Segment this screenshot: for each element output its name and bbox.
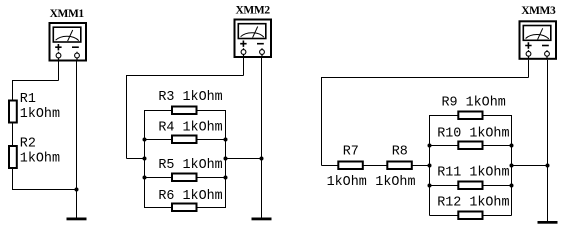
wire XMM1 minus terminal down — [76, 62, 78, 190]
left rail right bank — [429, 115, 431, 216]
wire down to R7 — [321, 77, 323, 166]
resistor R8 — [387, 162, 412, 170]
wire R1 to R2 — [12, 124, 14, 146]
wire R8 to left rail — [413, 165, 430, 167]
wire horizontal to left — [322, 77, 529, 79]
svg-text:R1: R1 — [20, 92, 36, 107]
svg-text:R5 1kOhm: R5 1kOhm — [158, 158, 222, 173]
resistor R4 — [145, 139, 172, 141]
svg-text:R11 1kOhm: R11 1kOhm — [437, 166, 509, 181]
junction left rail / feed — [143, 157, 147, 161]
wire down left side — [126, 75, 128, 159]
wire XMM2 minus down — [261, 58, 263, 218]
node junction left — [75, 188, 79, 192]
resistor R3 — [145, 110, 172, 112]
resistor R11 — [430, 185, 458, 187]
svg-text:XMM1: XMM1 — [50, 8, 85, 20]
multimeter XMM2 — [235, 20, 272, 59]
svg-text:R3 1kOhm: R3 1kOhm — [158, 90, 222, 105]
resistor R5 — [145, 177, 172, 179]
resistor R10 — [430, 145, 458, 147]
svg-text:R9 1kOhm: R9 1kOhm — [442, 96, 506, 111]
junction left rail / R4 — [143, 138, 147, 142]
ground middle — [252, 218, 272, 221]
wire XMM3 plus down — [528, 60, 530, 78]
wire to R7 — [322, 165, 339, 167]
svg-text:1kOhm: 1kOhm — [327, 175, 367, 190]
wire R7 to R8 — [364, 165, 388, 167]
resistor R7 — [338, 162, 363, 170]
junction right rail / return — [224, 157, 228, 161]
wire down to R1 — [12, 80, 14, 100]
wire XMM1 plus terminal down — [58, 62, 60, 81]
resistor R2 — [9, 146, 17, 168]
junction right rail / R11 — [510, 184, 514, 188]
wire R2 down — [12, 168, 14, 190]
svg-text:1kOhm: 1kOhm — [375, 175, 415, 190]
wire right rail to XMM3 minus vertical — [512, 165, 548, 167]
wire XMM2 plus down — [243, 58, 245, 76]
left rail middle bank — [144, 110, 146, 208]
wire horizontal to left — [127, 75, 244, 77]
right rail right bank — [511, 115, 513, 216]
ground left — [67, 218, 87, 221]
junction right rail / R5 — [224, 176, 228, 180]
junction left rail / R5 — [143, 176, 147, 180]
junction right rail / R4 — [224, 138, 228, 142]
svg-text:XMM2: XMM2 — [236, 5, 271, 17]
svg-text:R8: R8 — [392, 145, 408, 160]
svg-text:R4 1kOhm: R4 1kOhm — [158, 121, 222, 136]
wire into left rail — [127, 158, 145, 160]
junction left rail / R8 feed — [428, 164, 432, 168]
right rail middle bank — [225, 110, 227, 208]
svg-text:R12 1kOhm: R12 1kOhm — [437, 196, 509, 211]
svg-text:1kOhm: 1kOhm — [20, 152, 60, 167]
svg-text:1kOhm: 1kOhm — [20, 107, 60, 122]
wire right rail to XMM2 minus vertical — [226, 158, 262, 160]
junction left rail / R11 — [428, 184, 432, 188]
junction left rail / R10 — [428, 144, 432, 148]
wire bottom horizontal — [13, 189, 77, 191]
wire to ground — [76, 190, 78, 218]
resistor R12 — [430, 215, 458, 217]
resistor R1 — [9, 101, 17, 123]
svg-text:R7: R7 — [343, 145, 359, 160]
resistor R9 — [430, 115, 458, 117]
junction right rail / return — [510, 164, 514, 168]
resistor R6 — [145, 207, 172, 209]
svg-text:R6 1kOhm: R6 1kOhm — [158, 189, 222, 204]
wire top horizontal to left — [13, 80, 59, 82]
multimeter XMM1 — [50, 23, 87, 62]
multimeter XMM3 — [520, 21, 557, 60]
svg-text:R10 1kOhm: R10 1kOhm — [437, 127, 509, 142]
svg-text:R2: R2 — [20, 136, 36, 151]
svg-text:XMM3: XMM3 — [521, 5, 556, 17]
wire XMM3 minus down — [547, 60, 549, 221]
junction right rail / R10 — [510, 144, 514, 148]
ground right — [538, 221, 558, 224]
